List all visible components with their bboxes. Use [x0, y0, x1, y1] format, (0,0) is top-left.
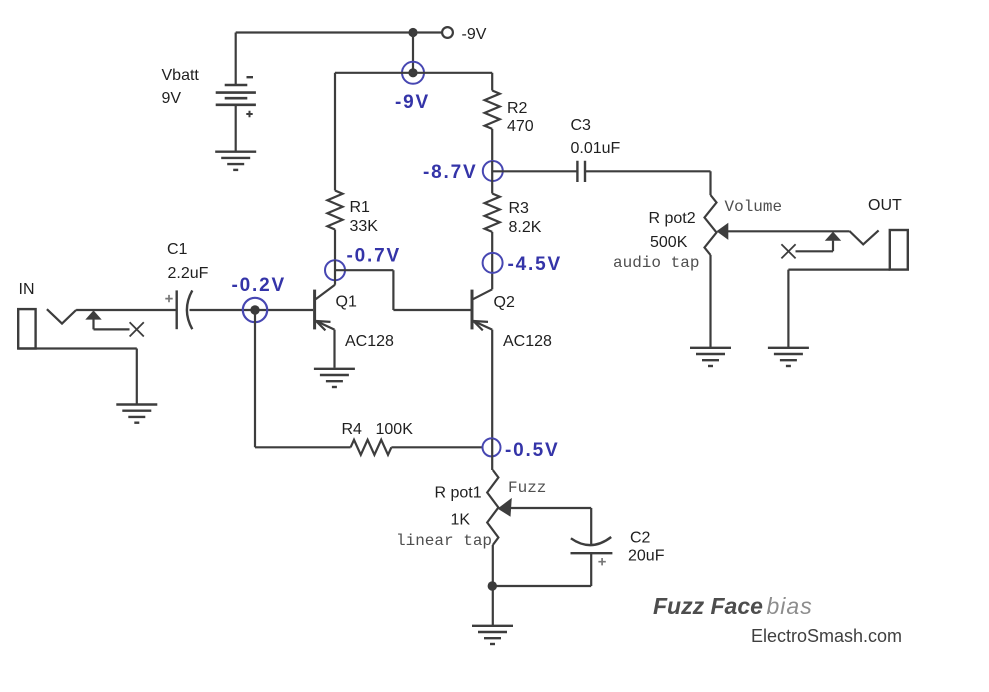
jack OUT switch X: [781, 244, 795, 258]
svg-text:Fuzz Face: Fuzz Face: [653, 593, 763, 619]
ground (Q1 emitter): [314, 369, 355, 387]
transistor Q1 collector diagonal: [316, 285, 335, 299]
node -0.7V probe circle: [325, 260, 345, 280]
capacitor C3: [577, 161, 585, 182]
jack OUT switch contact wire: [796, 241, 834, 252]
svg-text:C3: C3: [571, 117, 592, 134]
wire R pot2 wiper to OUT jack: [727, 230, 849, 232]
junction (battery / -9V terminal): [408, 28, 417, 37]
transistor Q1 emitter: [316, 321, 335, 368]
svg-text:AC128: AC128: [345, 333, 394, 350]
svg-text:R1: R1: [350, 199, 371, 216]
transistor Q2 emitter arrow: [473, 321, 488, 330]
svg-text:-0.5V: -0.5V: [505, 440, 559, 461]
resistor R4: [351, 440, 392, 455]
R pot1 wiper arrow: [498, 498, 512, 517]
svg-text:-9V: -9V: [395, 92, 430, 113]
svg-text:33K: 33K: [350, 218, 379, 235]
resistor R3: [485, 194, 500, 232]
capacitor C1 left plate: [175, 290, 177, 329]
svg-text:R pot1: R pot1: [435, 485, 482, 502]
svg-text:0.01uF: 0.01uF: [571, 140, 621, 157]
capacitor C2 plus sign: [598, 558, 605, 565]
wire -9V rail: [335, 72, 492, 74]
svg-text:Vbatt: Vbatt: [162, 67, 200, 84]
wire -0.5V node to R pot1: [491, 439, 493, 470]
jack IN tip contact arrow: [85, 310, 101, 319]
node -4.5V probe circle: [483, 253, 503, 273]
transistor Q2 base bar: [471, 290, 474, 330]
svg-text:linear tap: linear tap: [396, 532, 492, 550]
svg-text:-0.7V: -0.7V: [347, 246, 401, 267]
wire R2 to -8.7V node: [491, 129, 493, 161]
wire R4 to -0.5V node: [391, 446, 482, 448]
svg-text:R pot2: R pot2: [649, 210, 696, 227]
transistor Q2 collector diagonal: [473, 289, 492, 299]
svg-text:R2: R2: [507, 100, 528, 117]
svg-text:-8.7V: -8.7V: [423, 162, 477, 183]
wire rail down to R2: [491, 73, 493, 91]
svg-text:R3: R3: [509, 200, 530, 217]
transistor Q2 emitter: [473, 321, 492, 439]
wire C3 to R pot2: [585, 171, 711, 195]
wire R1 to Q1 collector: [334, 230, 336, 261]
svg-text:R4: R4: [342, 421, 363, 438]
wire through -0.7V circle: [334, 260, 336, 285]
svg-text:-9V: -9V: [462, 26, 487, 43]
transistor Q1 emitter arrow: [316, 321, 331, 330]
wire R3 to Q2 collector: [491, 232, 493, 289]
jack OUT sleeve wire: [788, 270, 889, 348]
wire R pot2 to ground: [709, 255, 711, 348]
svg-text:8.2K: 8.2K: [509, 219, 542, 236]
svg-text:Volume: Volume: [725, 198, 783, 216]
svg-text:Fuzz: Fuzz: [508, 479, 546, 497]
svg-text:OUT: OUT: [868, 197, 902, 214]
terminal -9V open circle: [442, 27, 453, 38]
wire battery positive lead: [235, 33, 237, 86]
svg-text:C2: C2: [630, 530, 651, 547]
wire battery top rail: [236, 31, 413, 33]
node -0.5V probe circle: [483, 438, 501, 456]
node -9V probe circle: [402, 62, 424, 84]
wire -0.2V node down to R4: [255, 310, 351, 447]
resistor R1: [327, 191, 342, 230]
jack IN switch contact wire: [94, 319, 130, 329]
ground (R pot2): [690, 348, 731, 366]
wire R pot1 to bottom junction: [492, 545, 494, 626]
wire to -9V terminal: [413, 31, 442, 33]
capacitor C1 right curved plate: [187, 290, 192, 329]
wire C1 to Q1 base: [190, 309, 314, 311]
wire junction down to -9V node: [412, 33, 414, 73]
node -8.7V probe circle: [483, 161, 503, 181]
svg-text:Q2: Q2: [494, 294, 515, 311]
potentiometer R pot2: [705, 195, 717, 255]
ground (R pot1 / C2): [472, 626, 513, 644]
svg-text:2.2uF: 2.2uF: [168, 265, 209, 282]
wire -0.7V to Q2 base: [335, 270, 472, 310]
jack OUT body: [890, 230, 908, 270]
svg-text:AC128: AC128: [503, 333, 552, 350]
battery minus sign: [247, 76, 254, 78]
jack OUT tip spring: [849, 230, 878, 244]
transistor Q1 base bar: [313, 290, 316, 330]
node -9V junction dot: [408, 68, 417, 77]
jack IN sleeve wire: [18, 349, 137, 405]
svg-text:-4.5V: -4.5V: [508, 254, 562, 275]
resistor R2: [485, 91, 500, 129]
svg-text:500K: 500K: [650, 234, 688, 251]
wire battery to ground: [235, 105, 237, 152]
node -0.2V junction dot: [250, 305, 259, 314]
wire C2 to bottom junction: [492, 553, 591, 586]
svg-text:1K: 1K: [451, 512, 471, 529]
R pot2 wiper arrow: [717, 223, 729, 240]
potentiometer R pot1: [487, 470, 498, 545]
ground (battery): [215, 152, 256, 170]
svg-text:100K: 100K: [376, 421, 414, 438]
svg-text:bias: bias: [767, 593, 813, 619]
svg-text:audio tap: audio tap: [613, 254, 699, 272]
wire IN tip to C1: [76, 309, 177, 311]
wire through -8.7V node to R3: [491, 161, 493, 194]
svg-text:20uF: 20uF: [628, 548, 665, 565]
wire -8.7V node to C3: [492, 170, 577, 172]
svg-text:C1: C1: [167, 241, 188, 258]
jack IN body: [18, 309, 35, 348]
svg-text:Q1: Q1: [336, 294, 357, 311]
ground (IN jack): [116, 405, 157, 423]
svg-text:9V: 9V: [162, 90, 182, 107]
capacitor C2 curved plate: [571, 537, 611, 545]
battery plus sign: [246, 111, 252, 117]
jack OUT tip contact arrow: [825, 232, 841, 241]
jack IN tip spring: [47, 309, 76, 323]
capacitor C1 plus sign: [165, 295, 172, 302]
battery Vbatt: [216, 85, 256, 105]
jack IN switch X: [130, 322, 144, 336]
junction dot (pot1 / C2 / ground): [488, 581, 497, 590]
capacitor C2 straight plate: [571, 552, 613, 554]
wire R pot1 wiper to C2: [510, 508, 591, 546]
ground (OUT jack): [768, 348, 809, 366]
svg-text:470: 470: [507, 118, 534, 135]
svg-text:ElectroSmash.com: ElectroSmash.com: [751, 626, 902, 646]
wire rail down to R1: [334, 73, 336, 191]
svg-text:IN: IN: [19, 281, 35, 298]
svg-text:-0.2V: -0.2V: [232, 275, 286, 296]
node -0.2V probe circle: [243, 298, 267, 322]
